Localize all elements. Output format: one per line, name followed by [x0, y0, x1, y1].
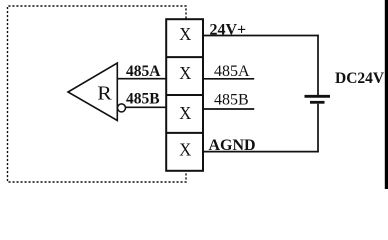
svg-text:485A: 485A — [214, 63, 250, 80]
wire battery bottom vertical — [317, 104, 319, 153]
op-amp U1 receiver triangle — [68, 63, 117, 121]
svg-text:DC24V: DC24V — [335, 70, 385, 87]
battery BT1 negative plate — [310, 101, 325, 104]
svg-text:R: R — [97, 83, 112, 105]
wire 485B left — [126, 106, 167, 108]
terminal block X1 — [166, 19, 203, 171]
svg-text:X: X — [179, 103, 191, 123]
svg-text:X: X — [179, 139, 191, 159]
wire 485B stub right — [203, 108, 254, 110]
svg-text:485A: 485A — [126, 63, 161, 80]
svg-text:485B: 485B — [214, 92, 249, 109]
inversion bubble — [118, 104, 126, 112]
svg-text:485B: 485B — [126, 91, 160, 108]
svg-text:AGND: AGND — [209, 137, 256, 154]
wire 485A left — [117, 78, 166, 80]
wire battery top vertical — [317, 35, 319, 95]
battery BT1 positive plate — [305, 95, 331, 98]
wire 24V+ — [203, 35, 319, 37]
dashed enclosure border — [8, 6, 187, 182]
svg-text:X: X — [179, 24, 191, 44]
crop artifact bar right edge — [385, 0, 388, 189]
wire 485A stub right — [203, 78, 254, 80]
wire AGND — [203, 151, 319, 153]
svg-text:24V+: 24V+ — [210, 21, 247, 38]
svg-text:X: X — [179, 63, 191, 83]
